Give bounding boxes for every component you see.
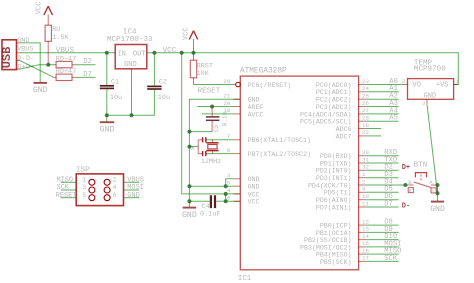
svg-text:GND: GND — [17, 37, 29, 45]
wire crystal ground to ground rail — [189, 146, 198, 148]
wire net 19 from pin 19 — [366, 128, 382, 130]
wire XTAL2 row to mega pin 8 — [207, 153, 233, 155]
svg-text:GND: GND — [124, 61, 137, 69]
svg-text:PB2(SS/OC1B): PB2(SS/OC1B) — [304, 237, 351, 244]
mega pin 9 PD5(T1) net D5 — [324, 186, 366, 197]
svg-text:21: 21 — [223, 93, 230, 100]
svg-text:19: 19 — [362, 122, 369, 129]
svg-text:PD1(TXD): PD1(TXD) — [320, 160, 352, 167]
wire net A0 from pin 23 — [366, 84, 403, 86]
wire net D2 from pin 32 — [366, 169, 399, 171]
mega pin 19 ADC6 — [336, 122, 370, 133]
mega pin 5 GND — [227, 180, 260, 191]
junction C2 top on VCC rail — [152, 51, 156, 55]
svg-text:PC4(ADC4/SDA): PC4(ADC4/SDA) — [300, 111, 351, 118]
mega pin 22 ADC7 — [336, 129, 370, 140]
svg-text:1: 1 — [82, 176, 86, 183]
wire VCC feed down to mega VCC pins — [182, 53, 241, 194]
svg-text:MCP9700: MCP9700 — [414, 65, 446, 73]
mega pin 27 PC4(ADC4/SDA) net A4 — [300, 107, 369, 118]
resistor RD+ 47 ohm on D- line — [54, 68, 76, 80]
svg-text:VCC: VCC — [163, 47, 177, 55]
svg-text:25: 25 — [362, 93, 369, 100]
mega pin 18 AVCC — [223, 107, 263, 118]
svg-text:PD6(AIN0): PD6(AIN0) — [316, 197, 352, 204]
wire C4 left plate to ground rail — [189, 200, 209, 202]
mega pin 11 PD7(AIN1) net D7 — [316, 200, 370, 211]
svg-text:22: 22 — [362, 129, 369, 136]
junction temp GND diagonal on button ground wire — [436, 191, 440, 195]
wire net D7 from pin 11 — [366, 206, 399, 208]
wire net SCK to ISP pin 3 — [61, 189, 76, 191]
svg-text:IC1: IC1 — [238, 275, 252, 283]
wire XTAL1 row to mega pin 7 — [207, 139, 233, 141]
svg-text:PB0(ICP): PB0(ICP) — [320, 223, 352, 230]
svg-text:RESET: RESET — [198, 88, 221, 96]
junction C1 top on VBUS rail — [105, 51, 109, 55]
svg-text:24: 24 — [362, 85, 369, 92]
svg-text:PC5(ADC5/SCL): PC5(ADC5/SCL) — [300, 119, 351, 126]
svg-text:MCP1700-33: MCP1700-33 — [107, 36, 153, 44]
svg-text:B': B' — [409, 188, 415, 194]
svg-text:VCC: VCC — [182, 27, 190, 40]
wire net D9 from pin 13 — [366, 231, 399, 233]
wire pin 5 GND row to ground rail — [189, 185, 233, 187]
svg-text:26: 26 — [362, 100, 369, 107]
temperature sensor TEMP MCP9700 — [408, 60, 454, 101]
svg-text:PD2(INT0): PD2(INT0) — [316, 168, 352, 175]
junction VCC arrow / RRST on rail — [192, 51, 196, 55]
wire net VBUS from USB to IC4 IN — [20, 52, 115, 54]
junction ground rail / pin5 row — [187, 184, 191, 188]
wire temp GND diagonal to ground near button — [427, 104, 438, 193]
svg-text:1: 1 — [362, 171, 366, 178]
junction C1 bottom on ground rail — [105, 113, 109, 117]
svg-text:ADC7: ADC7 — [336, 133, 352, 140]
mega pin 14 PB2(SS/OC1B) net D10 — [304, 233, 369, 244]
wire net MISO to ISP pin 1 — [61, 181, 76, 183]
mega pin 10 PD6(AIN0) net D6 — [316, 193, 370, 204]
mega pin 6 VCC — [227, 195, 260, 206]
wire ground rail under regulator — [107, 114, 155, 116]
svg-text:32: 32 — [362, 164, 369, 171]
wire net TXD from pin 31 — [366, 162, 399, 164]
temp sensor pin 3 GND stub — [422, 99, 427, 107]
wire mega pin 3 GND over to pin 5 row — [226, 179, 234, 186]
svg-text:GND: GND — [99, 124, 114, 134]
svg-text:GND: GND — [33, 86, 48, 95]
wire net D- from USB to RD+ resistor — [20, 61, 54, 78]
svg-text:ISP: ISP — [76, 167, 90, 175]
resistor RU 1.5K pull-up — [45, 25, 69, 42]
svg-text:27: 27 — [362, 107, 369, 114]
wire net A1 from pin 24 — [366, 91, 399, 93]
connector X1 USB — [0, 40, 17, 70]
svg-text:4: 4 — [113, 184, 117, 191]
wire net A4 from pin 27 — [366, 113, 399, 115]
svg-text:28: 28 — [362, 115, 369, 122]
svg-text:PD7(AIN1): PD7(AIN1) — [316, 204, 352, 211]
svg-text:GND: GND — [248, 184, 260, 191]
svg-text:GND: GND — [430, 205, 445, 214]
svg-text:VBUS: VBUS — [56, 47, 75, 55]
wire net D2 stub right of RD- — [75, 64, 96, 66]
svg-text:PC0(ADC0): PC0(ADC0) — [316, 82, 352, 89]
connector ISP header 2x3 — [76, 167, 124, 206]
mega pin 23 PC0(ADC0) net A0 — [316, 78, 370, 89]
svg-text:AVCC: AVCC — [248, 111, 264, 118]
svg-text:D2: D2 — [83, 58, 92, 66]
svg-text:USB: USB — [0, 47, 14, 69]
svg-text:2: 2 — [362, 178, 366, 185]
wire net RXD from pin 30 — [366, 155, 399, 157]
mega pin 15 PB3(MOSI/OC2) net MOSI — [300, 240, 369, 251]
pin VBUS of USB connector — [17, 46, 34, 54]
supply VCC symbol above RU — [35, 2, 52, 65]
svg-text:+VS: +VS — [436, 81, 449, 89]
wire net A2 from pin 25 — [366, 98, 399, 100]
junction on pin 6 row — [224, 199, 228, 203]
svg-text:PD0(RXD): PD0(RXD) — [320, 153, 352, 160]
svg-text:6: 6 — [113, 192, 117, 199]
wire ground rail from mega pin 21 down — [189, 99, 240, 207]
wire net 22 from pin 22 — [366, 135, 382, 137]
svg-text:D7: D7 — [384, 200, 393, 208]
junction ground rail / crystal — [187, 145, 191, 149]
wire net VCC from IC4 OUT to temp sensor +VS — [147, 53, 459, 85]
svg-text:ADC6: ADC6 — [336, 126, 352, 133]
svg-text:3: 3 — [422, 100, 426, 107]
junction VCC feed to pin-6 drop — [224, 192, 228, 196]
svg-text:30: 30 — [362, 149, 369, 156]
resistor RRST 10K — [190, 53, 213, 85]
svg-text:1: 1 — [456, 78, 460, 85]
mega pin 20 AREF — [223, 100, 263, 111]
mega pin 8 PB7(XTAL2/TOSC2) — [227, 147, 311, 158]
wire net MOSI from pin 15 — [366, 246, 399, 248]
svg-text:RD+47: RD+47 — [56, 68, 76, 76]
wire net D7 stub right of RD+ — [75, 76, 96, 78]
svg-text:9: 9 — [362, 186, 366, 193]
svg-text:10u: 10u — [110, 94, 122, 102]
junction ground rail / C3 — [187, 130, 191, 134]
svg-text:RESET: RESET — [56, 192, 77, 200]
resistor RD- 47 ohm on D+ line — [54, 55, 76, 68]
wire IC4 GND pin down to ground rail — [131, 69, 133, 116]
ground near button — [430, 202, 445, 214]
microcontroller IC1 ATMEGA328P — [238, 68, 359, 283]
wire net MOSI to ISP pin 4 — [124, 189, 140, 191]
svg-text:3: 3 — [82, 184, 86, 191]
mega pin 1 PD3(INT1) net D3 — [316, 171, 366, 182]
ground below mega decoupling — [182, 208, 197, 220]
svg-text:AREF: AREF — [248, 104, 264, 111]
svg-text:D+: D+ — [17, 64, 25, 72]
svg-text:C3: C3 — [213, 125, 220, 133]
junction VCC feed on rail — [180, 51, 184, 55]
svg-text:PD4(XCK/T0): PD4(XCK/T0) — [308, 182, 352, 189]
pin GND of USB connector — [17, 37, 30, 45]
mega pin 28 PC5(ADC5/SCL) net A5 — [300, 115, 369, 126]
wire C4 right plate to mega pin 6 — [216, 200, 240, 202]
svg-text:7: 7 — [227, 133, 231, 140]
wire net MISO from pin 16 — [366, 253, 399, 255]
pushbutton BTN — [408, 161, 437, 194]
svg-text:10K: 10K — [197, 70, 210, 78]
voltage regulator IC4 MCP1700-33 — [107, 29, 153, 69]
pin D- of USB connector — [17, 55, 35, 63]
wire net D8 from pin 12 — [366, 224, 399, 226]
mega pin 25 PC2(ADC2) net A2 — [316, 93, 370, 104]
svg-text:11: 11 — [362, 200, 369, 207]
wire net SCK from pin 17 — [366, 260, 399, 262]
svg-text:BTN: BTN — [414, 161, 428, 169]
capacitor C2 10u — [147, 53, 170, 116]
svg-text:GND: GND — [182, 211, 197, 220]
junction IC4 GND on ground rail — [130, 113, 134, 117]
mega pin 12 PB0(ICP) net D8 — [320, 218, 370, 229]
mega pin 13 PB1(OC1A) net D9 — [316, 226, 370, 237]
svg-text:PB5(SCK): PB5(SCK) — [320, 259, 352, 266]
svg-text:PB1(OC1A): PB1(OC1A) — [316, 230, 352, 237]
svg-text:ATMEGA328P: ATMEGA328P — [240, 68, 287, 76]
ground below regulator — [99, 122, 114, 134]
svg-text:2: 2 — [402, 78, 406, 85]
svg-text:12MHz: 12MHz — [201, 158, 221, 166]
wire C3 bottom to ground rail — [189, 131, 212, 133]
svg-text:13: 13 — [362, 226, 369, 233]
svg-text:A5: A5 — [389, 115, 398, 123]
wire net D+ from USB to RD- resistor — [20, 65, 54, 69]
svg-text:SCK: SCK — [384, 255, 398, 263]
temp sensor pin 2 stub — [403, 84, 408, 86]
svg-text:VCC: VCC — [248, 199, 260, 206]
svg-text:GND: GND — [248, 176, 260, 183]
mega pin 3 GND — [227, 172, 260, 183]
svg-text:PC6(/RESET): PC6(/RESET) — [248, 82, 292, 89]
ground near USB — [33, 83, 48, 95]
junction AREF row / C3 top — [210, 105, 214, 109]
svg-text:PB6(XTAL1/TOSC1): PB6(XTAL1/TOSC1) — [248, 137, 311, 144]
svg-text:16: 16 — [362, 247, 369, 254]
pin D+ of USB connector — [17, 64, 35, 72]
junction button left on D4 wire — [403, 183, 407, 187]
wire net A3 from pin 26 — [366, 106, 399, 108]
mega pin 4 VCC — [227, 187, 260, 198]
svg-text:C1: C1 — [111, 79, 119, 87]
junction button right — [436, 183, 440, 187]
svg-text:PC3(ADC3): PC3(ADC3) — [316, 104, 352, 111]
svg-text:PB7(XTAL2/TOSC2): PB7(XTAL2/TOSC2) — [248, 151, 311, 158]
mega pin 26 PC3(ADC3) net A3 — [316, 100, 370, 111]
svg-text:GND: GND — [248, 97, 260, 104]
mega pin 29 PC6(/RESET) — [223, 78, 291, 89]
wire net D5 from pin 9 — [366, 191, 399, 193]
svg-text:D-: D- — [402, 203, 410, 211]
svg-text:10: 10 — [362, 193, 369, 200]
svg-text:6: 6 — [227, 195, 231, 202]
svg-text:C2: C2 — [159, 79, 167, 87]
svg-text:18: 18 — [223, 107, 230, 114]
svg-text:D-: D- — [17, 55, 25, 63]
svg-text:PC1(ADC1): PC1(ADC1) — [316, 89, 352, 96]
svg-text:2: 2 — [113, 176, 117, 183]
svg-text:29: 29 — [223, 78, 230, 85]
svg-text:20: 20 — [223, 100, 230, 107]
svg-text:14: 14 — [362, 233, 369, 240]
wire AREF row to mega pin 20 — [197, 106, 233, 108]
svg-text:0.1uF: 0.1uF — [200, 210, 220, 218]
mega pin 32 PD2(INT0) net D2 — [316, 164, 370, 175]
svg-text:D+: D+ — [402, 164, 410, 172]
wire net D3 from pin 1 — [366, 177, 399, 179]
crystal X 12MHz with load caps — [191, 137, 222, 166]
svg-text:23: 23 — [362, 78, 369, 85]
mega pin 24 PC1(ADC1) net A1 — [316, 85, 370, 96]
junction pin3 drop on pin5 row — [224, 184, 228, 188]
svg-text:D7: D7 — [83, 71, 92, 79]
svg-text:5: 5 — [82, 192, 86, 199]
wire net D6 from pin 10 — [366, 199, 399, 201]
svg-text:PD3(INT1): PD3(INT1) — [316, 175, 352, 182]
wire net D4 from pin 2 to button — [366, 184, 409, 186]
wire net RESET from RRST to mega pin 29 — [194, 84, 234, 86]
mega pin 2 PD4(XCK/T0) net D4 — [308, 178, 366, 189]
wire stub to ground symbol below C1 — [106, 115, 108, 121]
svg-text:4: 4 — [227, 187, 231, 194]
wire net VBUS to ISP pin 2 — [124, 181, 140, 183]
junction RU bottom with D+ wire — [46, 63, 50, 67]
svg-text:OUT: OUT — [133, 50, 146, 58]
svg-text:8: 8 — [227, 147, 231, 154]
capacitor C3 0.1u on AREF — [206, 107, 229, 133]
svg-text:VCC: VCC — [248, 191, 260, 198]
wire net GND to ISP pin 6 — [124, 197, 140, 199]
svg-text:PD5(T1): PD5(T1) — [324, 190, 352, 197]
wire drop from VCC row to pin 6 row — [225, 194, 227, 201]
capacitor C1 10u — [100, 53, 122, 116]
svg-text:D-: D- — [26, 55, 34, 63]
svg-text:12: 12 — [362, 218, 369, 225]
svg-text:VO: VO — [413, 81, 421, 89]
wire AVCC row to mega pin 18 — [202, 113, 234, 115]
mega pin 16 PB4(MISO) net MISO — [316, 247, 370, 258]
wire button right contact down to ground — [437, 185, 439, 201]
svg-text:10u: 10u — [158, 94, 170, 102]
wire net D10 from pin 14 — [366, 239, 399, 241]
svg-text:5: 5 — [227, 180, 231, 187]
mega pin 7 PB6(XTAL1/TOSC1) — [227, 133, 311, 144]
svg-text:PC2(ADC2): PC2(ADC2) — [316, 97, 352, 104]
svg-text:1.5K: 1.5K — [52, 34, 69, 42]
svg-text:IN: IN — [118, 50, 126, 58]
svg-text:31: 31 — [362, 156, 369, 163]
svg-text:PB3(MOSI/OC2): PB3(MOSI/OC2) — [300, 244, 351, 251]
wire net A5 from pin 28 — [366, 120, 399, 122]
svg-text:GND: GND — [127, 192, 139, 200]
wire USB GND pin to ground — [20, 43, 40, 83]
junction ground rail / C4 row — [187, 199, 191, 203]
svg-text:VCC: VCC — [35, 2, 43, 15]
supply VCC symbol near RRST — [182, 27, 197, 52]
svg-text:17: 17 — [362, 255, 369, 262]
svg-text:PB4(MISO): PB4(MISO) — [316, 252, 352, 259]
svg-text:15: 15 — [362, 240, 369, 247]
svg-text:3: 3 — [227, 172, 231, 179]
wire net RESET to ISP pin 5 — [61, 197, 76, 199]
temp sensor pin 1 +VS stub — [454, 78, 460, 85]
svg-text:RD-47: RD-47 — [56, 55, 76, 63]
capacitor C4 0.1uF on VCC — [200, 195, 220, 218]
mega pin 30 PD0(RXD) net RXD — [320, 149, 370, 160]
mega pin 21 GND — [223, 93, 259, 104]
mega pin 31 PD1(TXD) net TXD — [320, 156, 370, 167]
mega pin 17 PB5(SCK) net SCK — [320, 255, 370, 266]
